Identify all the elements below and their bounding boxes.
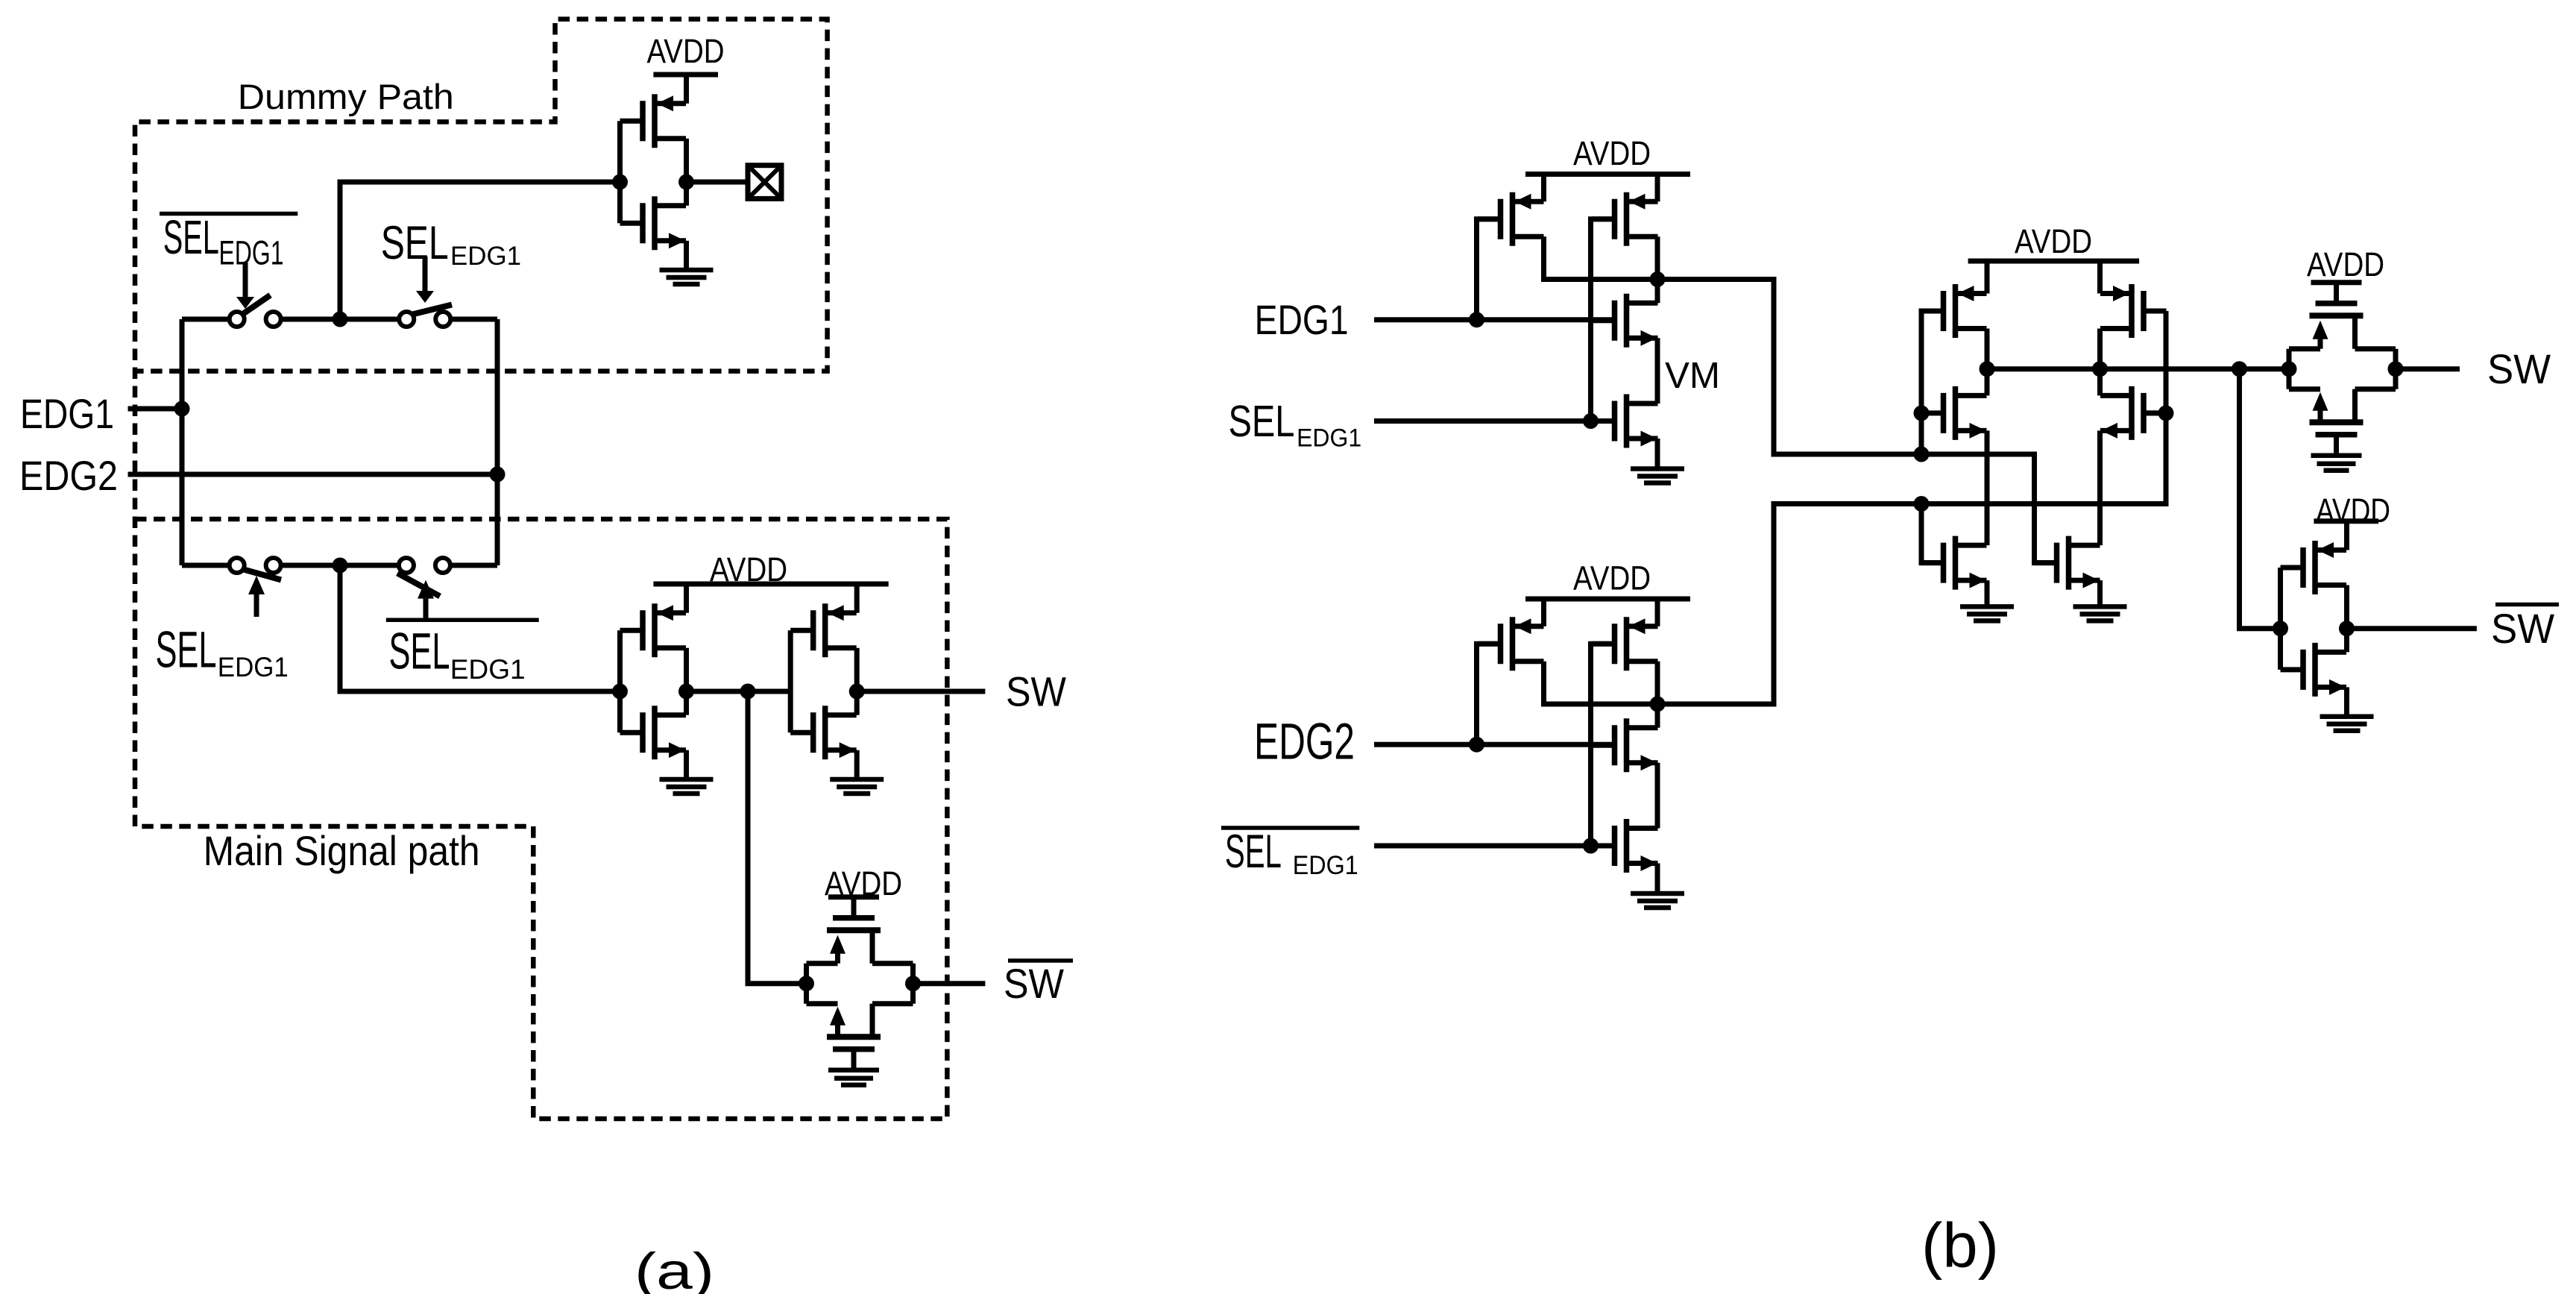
svg-text:AVDD: AVDD [2307,245,2384,283]
svg-text:AVDD: AVDD [1573,559,1651,597]
svg-text:(a): (a) [634,1243,714,1294]
svg-text:EDG1: EDG1 [1255,296,1349,343]
svg-text:SW: SW [2487,345,2551,392]
svg-text:SEL: SEL [1229,397,1295,446]
svg-text:AVDD: AVDD [1573,134,1651,172]
svg-text:EDG1: EDG1 [20,390,114,437]
svg-text:SEL: SEL [156,621,217,679]
svg-text:VM: VM [1665,355,1720,396]
svg-text:AVDD: AVDD [710,550,787,588]
svg-text:AVDD: AVDD [2316,491,2390,530]
svg-text:SEL: SEL [381,217,449,269]
svg-text:EDG1: EDG1 [218,652,289,682]
svg-text:EDG1: EDG1 [1293,851,1358,880]
svg-text:Main Signal path: Main Signal path [204,828,480,874]
svg-text:AVDD: AVDD [2015,222,2092,260]
svg-text:EDG1: EDG1 [450,242,521,271]
svg-text:SEL: SEL [163,210,219,264]
svg-text:SW: SW [2491,605,2554,652]
svg-text:AVDD: AVDD [825,864,902,902]
svg-text:(b): (b) [1921,1210,1999,1281]
svg-text:SEL: SEL [1225,826,1282,878]
svg-text:SW: SW [1006,668,1066,715]
svg-text:EDG1: EDG1 [1297,424,1361,452]
svg-text:EDG1: EDG1 [219,234,284,272]
svg-text:EDG2: EDG2 [19,452,118,499]
svg-text:Dummy Path: Dummy Path [238,78,454,117]
svg-text:SEL: SEL [389,623,450,680]
svg-text:AVDD: AVDD [647,32,725,70]
svg-text:EDG2: EDG2 [1254,713,1355,770]
svg-text:SW: SW [1004,960,1064,1007]
svg-text:EDG1: EDG1 [450,654,526,685]
